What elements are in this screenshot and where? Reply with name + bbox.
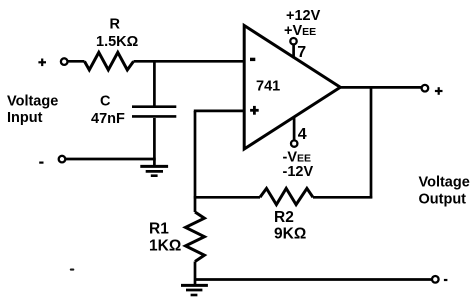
- wire lower-left terminal to ground node: [65, 158, 155, 161]
- svg-text:1KΩ: 1KΩ: [149, 238, 181, 255]
- wire R1 to bottom rail: [194, 262, 197, 286]
- wire op-amp plus input: [194, 110, 245, 113]
- op-amp U1 (741): [244, 26, 340, 150]
- svg-text:Voltage: Voltage: [7, 94, 58, 110]
- label - (bottom-left minus mark): [70, 269, 75, 271]
- svg-text:7: 7: [297, 44, 306, 61]
- wire bottom rail: [195, 278, 432, 281]
- svg-text:47nF: 47nF: [91, 111, 125, 127]
- terminal IN-: [59, 156, 66, 163]
- pin 7 terminal: [290, 38, 296, 44]
- svg-text:+12V: +12V: [286, 8, 321, 24]
- node A vertical wire to capacitor: [153, 61, 156, 105]
- svg-text:9KΩ: 9KΩ: [274, 225, 306, 242]
- terminal OUT-: [432, 276, 439, 283]
- wire plus input down to R1: [194, 111, 197, 212]
- wire resistor to op-amp minus input: [134, 60, 246, 63]
- wire feedback vertical: [370, 87, 373, 198]
- svg-text:Output: Output: [419, 192, 467, 208]
- svg-text:R2: R2: [274, 209, 294, 226]
- label - (lower input minus sign): [39, 162, 43, 164]
- svg-text:R1: R1: [149, 220, 169, 237]
- svg-text:R: R: [110, 17, 121, 33]
- resistor R2: [260, 188, 313, 204]
- resistor R1: [186, 212, 205, 262]
- wire op-amp output: [340, 86, 422, 89]
- wire feedback right segment: [313, 196, 372, 199]
- svg-text:Voltage: Voltage: [419, 174, 470, 190]
- svg-text:C: C: [100, 94, 111, 110]
- terminal OUT+: [422, 85, 429, 92]
- terminal IN+: [61, 58, 68, 65]
- wire input to resistor R: [68, 60, 85, 63]
- resistor R: [85, 52, 134, 70]
- svg-text:741: 741: [256, 79, 280, 95]
- label + (output plus sign): [435, 87, 443, 95]
- ground G1: [140, 166, 168, 175]
- wire feedback left segment: [194, 196, 260, 199]
- op-amp minus sign: [250, 58, 255, 61]
- svg-text:-12V: -12V: [283, 164, 314, 180]
- pin 7 stub: [292, 44, 295, 58]
- op-amp plus sign: [250, 106, 259, 115]
- label - (output minus sign): [444, 279, 448, 281]
- pin 4 terminal: [291, 140, 297, 146]
- svg-text:1.5KΩ: 1.5KΩ: [96, 34, 139, 50]
- capacitor C: [132, 107, 176, 117]
- ground G2: [181, 285, 208, 295]
- svg-text:+VEE: +VEE: [284, 23, 316, 39]
- svg-text:4: 4: [298, 126, 307, 143]
- svg-text:Input: Input: [7, 110, 43, 126]
- wire capacitor to ground junction: [153, 118, 156, 166]
- label + (input plus sign): [38, 59, 46, 67]
- pin 4 stub: [293, 117, 296, 141]
